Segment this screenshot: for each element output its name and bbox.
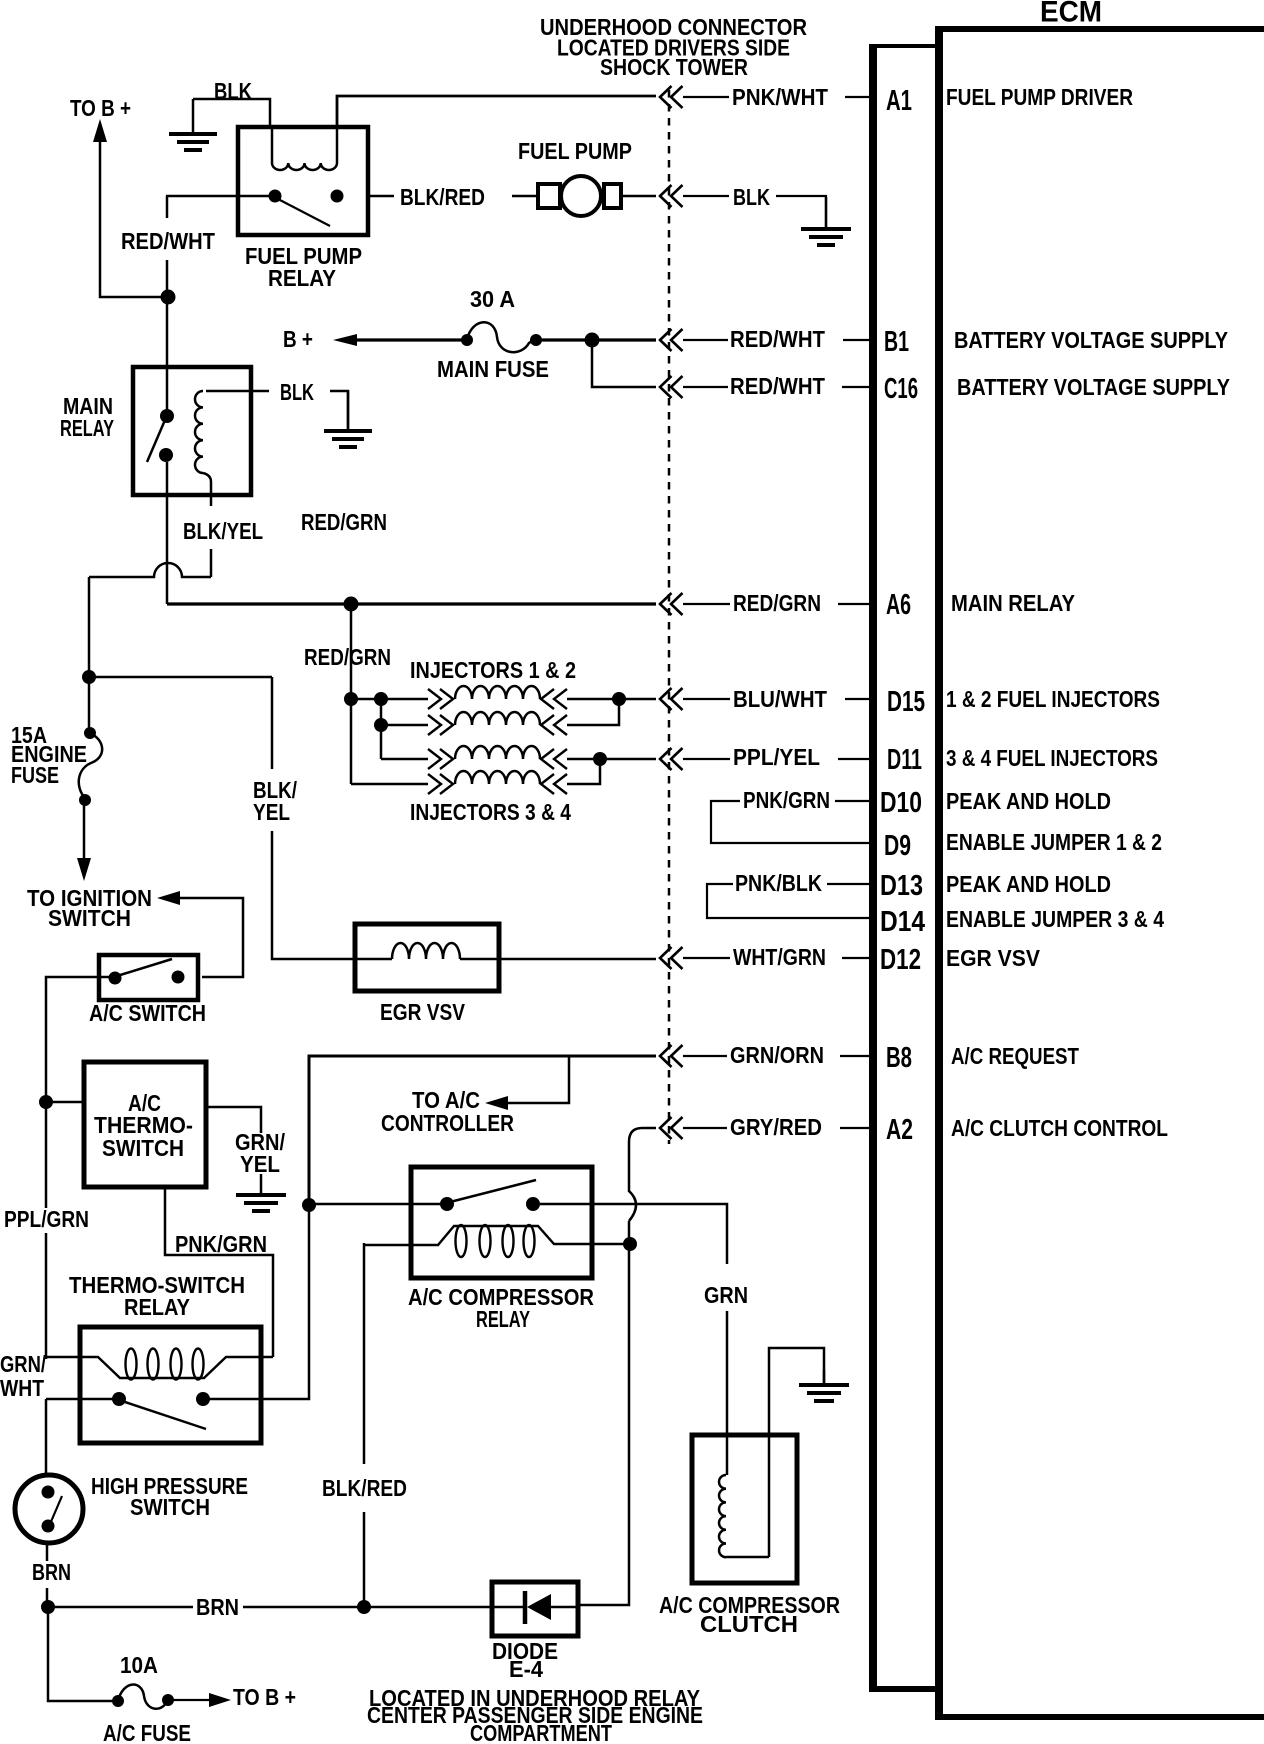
wire A/C switch left down <box>46 977 111 1097</box>
connector chevrons A2 row <box>660 1117 672 1139</box>
A/C switch contact right <box>172 971 185 984</box>
high pressure switch circle <box>15 1475 83 1543</box>
svg-text:A/C CLUTCH CONTROL: A/C CLUTCH CONTROL <box>951 1115 1168 1141</box>
wire GRY/RED to ECM pin A2 <box>840 1127 870 1129</box>
wire GRN/WHT to relay <box>46 1398 113 1401</box>
high pressure switch blade <box>50 1496 62 1524</box>
svg-text:A1: A1 <box>886 85 912 117</box>
svg-text:BLU/WHT: BLU/WHT <box>733 686 827 712</box>
wire BLU/WHT to ECM pin D15 <box>845 698 870 700</box>
wire main relay switch to A6 (RED/GRN) <box>166 462 169 604</box>
A/C compressor relay box <box>411 1167 592 1278</box>
svg-text:B1: B1 <box>884 326 909 358</box>
svg-text:BLK/RED: BLK/RED <box>400 184 485 210</box>
main fuse element <box>467 322 535 352</box>
wire PPL/GRN upper <box>45 1102 48 1208</box>
wire BLK to ground (main relay) <box>330 391 348 430</box>
svg-text:CLUTCH: CLUTCH <box>700 1611 798 1637</box>
svg-text:A/C SWITCH: A/C SWITCH <box>89 1000 206 1026</box>
svg-text:3 & 4 FUEL INJECTORS: 3 & 4 FUEL INJECTORS <box>946 745 1158 771</box>
connector dashed line <box>668 90 671 1144</box>
A/C switch contact left <box>109 972 122 985</box>
svg-text:PNK/GRN: PNK/GRN <box>175 1231 267 1257</box>
svg-text:SWITCH: SWITCH <box>130 1494 210 1520</box>
svg-text:PPL/GRN: PPL/GRN <box>4 1206 89 1232</box>
wire BLK/YEL to EGR branch <box>89 676 272 679</box>
wire GRY/RED corner down <box>629 1128 656 1192</box>
svg-text:C16: C16 <box>884 373 918 405</box>
wire BLU/WHT <box>683 698 730 700</box>
wire GRN/ORN <box>683 1055 727 1057</box>
svg-text:EGR VSV: EGR VSV <box>946 945 1041 971</box>
wire TO B+ down to RED/WHT junction <box>100 138 162 297</box>
ground fuel pump relay coil <box>192 99 195 134</box>
thermo-switch relay contact right <box>196 1392 210 1406</box>
svg-text:FUEL PUMP DRIVER: FUEL PUMP DRIVER <box>946 84 1133 110</box>
connector chevrons D11 row <box>660 748 672 770</box>
svg-text:PPL/YEL: PPL/YEL <box>733 744 820 770</box>
svg-text:WHT: WHT <box>0 1375 44 1401</box>
ECM connector strip top stub <box>877 44 936 48</box>
wire GRN/WHT down <box>45 1399 48 1477</box>
svg-text:GRN/: GRN/ <box>0 1351 46 1377</box>
svg-text:PNK/BLK: PNK/BLK <box>735 870 822 896</box>
wire BLK/RED vertical lower <box>363 1512 366 1607</box>
svg-text:PEAK AND HOLD: PEAK AND HOLD <box>946 871 1111 897</box>
svg-text:RED/GRN: RED/GRN <box>304 644 391 670</box>
svg-text:BLK/RED: BLK/RED <box>322 1475 407 1501</box>
wire RED/WHT vertical upper <box>166 196 169 218</box>
arrow to ignition (down) <box>77 858 91 881</box>
diode bar <box>523 1591 528 1624</box>
arrow TO B+ (bottom) <box>209 1693 231 1707</box>
svg-text:RED/GRN: RED/GRN <box>733 590 821 616</box>
A/C fuse terminal right <box>162 1694 174 1706</box>
diode wire left <box>492 1606 523 1609</box>
svg-text:MAIN RELAY: MAIN RELAY <box>951 590 1075 616</box>
svg-text:SHOCK TOWER: SHOCK TOWER <box>600 54 748 80</box>
svg-text:D14: D14 <box>880 906 925 938</box>
svg-text:A2: A2 <box>886 1114 913 1146</box>
wire main relay coil lower (BLK/YEL) <box>210 549 213 577</box>
svg-text:RELAY: RELAY <box>124 1294 190 1320</box>
main relay coil <box>206 390 269 393</box>
svg-text:BRN: BRN <box>196 1594 239 1620</box>
svg-text:E-4: E-4 <box>509 1656 543 1682</box>
svg-text:BLK: BLK <box>733 184 770 210</box>
main relay contact upper <box>160 409 174 423</box>
fuel pump relay coil <box>271 127 274 163</box>
connector chevrons A6 row <box>660 593 672 615</box>
junction GRY/RED coil <box>623 1237 637 1251</box>
ECM connector strip bottom edge <box>869 1686 936 1692</box>
svg-text:RED/WHT: RED/WHT <box>730 373 825 399</box>
wire main fuse to B1 connector <box>536 338 656 341</box>
svg-text:GRN/ORN: GRN/ORN <box>730 1042 824 1068</box>
svg-text:A/C REQUEST: A/C REQUEST <box>951 1043 1079 1069</box>
svg-text:RELAY: RELAY <box>60 415 114 441</box>
wire PNK/WHT <box>683 96 729 98</box>
engine fuse element <box>79 733 102 798</box>
junction injectors 3&4 output <box>593 752 607 766</box>
connector chevrons A1 row <box>660 86 672 108</box>
ground thermo-switch <box>260 1174 263 1195</box>
svg-text:PNK/WHT: PNK/WHT <box>732 84 828 110</box>
svg-text:PNK/GRN: PNK/GRN <box>743 787 830 813</box>
A/C thermo-switch box <box>84 1062 206 1187</box>
engine fuse terminal bottom <box>79 794 91 806</box>
wire PNK/BLK to ECM pin D13 <box>827 883 870 885</box>
junction A/C switch branch <box>39 1095 53 1109</box>
wire BLK/YEL hop over RED/GRN <box>89 563 211 577</box>
junction B8 corner <box>302 1198 316 1212</box>
svg-text:D10: D10 <box>880 787 922 819</box>
wire PPL/YEL to ECM pin D11 <box>838 758 870 760</box>
wire A/C fuse to arrow <box>168 1699 212 1701</box>
svg-text:RED/GRN: RED/GRN <box>301 509 387 535</box>
wire injector feeder A vertical <box>350 604 353 784</box>
wire below high pressure switch <box>46 1543 49 1561</box>
junction BRN/BLKRED <box>357 1600 371 1614</box>
junction B1/C16 <box>585 333 600 348</box>
wire GRN lower <box>726 1311 729 1437</box>
wire RED/WHT to fuel pump relay <box>166 195 269 198</box>
svg-text:A/C FUSE: A/C FUSE <box>103 1720 191 1744</box>
svg-text:FUSE: FUSE <box>11 762 59 788</box>
thermo-switch relay box <box>80 1327 261 1443</box>
svg-text:B8: B8 <box>886 1042 912 1074</box>
svg-text:ECM: ECM <box>1040 0 1102 29</box>
svg-text:TO B +: TO B + <box>233 1684 296 1710</box>
junction BLK/YEL <box>82 670 96 684</box>
wire RED/WHT to ECM pin C16 <box>842 386 870 388</box>
junction injector feeder B top <box>374 692 388 706</box>
A/C fuse terminal left <box>112 1695 124 1707</box>
wire RED/WHT to ECM pin B1 <box>843 339 870 341</box>
svg-text:RED/WHT: RED/WHT <box>121 228 215 254</box>
wire B8 to compressor relay switch <box>309 1203 444 1206</box>
svg-text:GRY/RED: GRY/RED <box>730 1114 822 1140</box>
wire BLK/YEL vertical lower to EGR <box>272 831 358 959</box>
svg-text:1 & 2 FUEL INJECTORS: 1 & 2 FUEL INJECTORS <box>946 686 1160 712</box>
compressor relay contact left <box>440 1197 454 1211</box>
wire GRN/ORN to ECM pin B8 <box>840 1055 870 1057</box>
wire GRN/ORN B8 feeder <box>309 1056 656 1199</box>
fuel pump relay contact right <box>331 190 344 203</box>
junction injector row2 feeder B <box>374 718 388 732</box>
svg-text:10A: 10A <box>120 1652 158 1678</box>
wire fuel pump relay coil to A1 connector <box>337 96 656 127</box>
svg-text:INJECTORS 1 & 2: INJECTORS 1 & 2 <box>410 657 576 683</box>
junction injector row1 feeder A <box>344 692 358 706</box>
wire junction to engine fuse <box>88 677 91 733</box>
A/C compressor clutch box <box>692 1435 797 1583</box>
wire GRY/RED to relay coil <box>628 1221 631 1240</box>
A/C switch box <box>99 955 198 1000</box>
compressor relay coil <box>364 1226 624 1245</box>
diode box <box>492 1582 578 1636</box>
junction RED/WHT <box>161 290 176 305</box>
junction A6/injectors <box>344 597 359 612</box>
svg-text:RELAY: RELAY <box>268 265 336 291</box>
wire BLK/YEL down to junction <box>88 577 91 677</box>
compressor clutch coil <box>726 1437 729 1475</box>
injector 2 coil <box>381 724 428 727</box>
wire compressor relay switch output (GRN) <box>540 1204 727 1264</box>
wire thermo-switch to ground <box>206 1107 261 1133</box>
wire BLK right of connector <box>683 195 729 197</box>
svg-text:ENABLE JUMPER 3 & 4: ENABLE JUMPER 3 & 4 <box>946 906 1164 932</box>
ECM box bottom edge <box>943 1714 1264 1720</box>
junction BRN corner <box>41 1600 55 1614</box>
connector chevrons C16 row <box>660 376 672 398</box>
svg-text:30 A: 30 A <box>470 286 515 312</box>
wire BRN left segment <box>48 1606 193 1609</box>
wire RED/WHT B1 <box>683 339 728 341</box>
svg-text:PEAK AND HOLD: PEAK AND HOLD <box>946 788 1111 814</box>
wire B1 junction down to C16 <box>592 340 656 387</box>
wire PNK/GRN to ECM pin D10 <box>835 800 870 802</box>
ECM box left bar <box>935 26 943 1720</box>
main relay switch blade <box>147 420 165 462</box>
svg-text:D12: D12 <box>880 944 921 976</box>
thermo-switch relay blade <box>122 1401 206 1429</box>
injector 1 coil <box>351 698 428 701</box>
diode wire right <box>551 1606 578 1609</box>
connector chevrons D15 row <box>660 688 672 710</box>
arrow to B+ (top) <box>93 119 107 142</box>
wire diode to GRY/RED riser <box>578 1246 629 1605</box>
engine fuse terminal top <box>84 727 96 739</box>
svg-text:ENABLE JUMPER 1 & 2: ENABLE JUMPER 1 & 2 <box>946 829 1162 855</box>
svg-text:WHT/GRN: WHT/GRN <box>733 944 826 970</box>
svg-text:RELAY: RELAY <box>476 1306 530 1332</box>
connector chevrons B8 row <box>660 1045 672 1067</box>
diode triangle <box>527 1594 551 1620</box>
wire clutch coil to ground <box>769 1348 824 1557</box>
junction injectors 1&2 output <box>612 692 626 706</box>
wire injector1 output <box>567 698 656 701</box>
high pressure switch contact bottom <box>42 1520 55 1533</box>
main fuse terminal left <box>461 334 473 346</box>
wire PNK/GRN thermo-switch output <box>165 1187 273 1357</box>
wire A/C switch to ignition arrow <box>176 898 243 977</box>
connector chevrons B1 row <box>660 329 672 351</box>
wire BRN right segment <box>243 1606 490 1609</box>
wire WHT/GRN to ECM pin D12 <box>842 957 870 959</box>
fuel pump relay contact left <box>269 190 282 203</box>
wire to A/C controller from B8 <box>504 1056 569 1103</box>
wire BLK/RED fuel pump relay output <box>368 195 394 198</box>
wire BLK/YEL vertical upper <box>271 677 274 769</box>
main fuse terminal right <box>530 334 542 346</box>
wire RED/GRN to ECM pin A6 <box>838 603 870 605</box>
wire B+ to main fuse <box>352 338 467 341</box>
A/C fuse element <box>118 1685 167 1709</box>
svg-text:BLK/YEL: BLK/YEL <box>183 518 263 544</box>
wire PNK/WHT to ECM pin A1 <box>845 96 870 98</box>
wire BRN to junction <box>46 1588 49 1607</box>
wire GRY/RED hop over switch wire <box>629 1191 636 1221</box>
wire RED/WHT vertical lower <box>166 260 169 416</box>
svg-text:D13: D13 <box>880 870 923 902</box>
arrow to A/C controller <box>485 1096 508 1110</box>
wire RED/GRN A6 <box>683 603 730 605</box>
svg-text:D15: D15 <box>887 686 925 718</box>
wire fuel pump to connector <box>621 195 656 198</box>
wire junction to thermo-switch <box>46 1101 84 1104</box>
svg-text:BRN: BRN <box>32 1559 71 1585</box>
svg-text:COMPARTMENT: COMPARTMENT <box>470 1720 612 1744</box>
wire BLK/RED to fuel pump <box>512 195 538 198</box>
EGR VSV coil <box>358 958 392 961</box>
connector chevrons fuel pump BLK row <box>660 185 672 207</box>
svg-text:BLK: BLK <box>280 379 314 405</box>
wire injector2 output <box>567 699 619 725</box>
svg-text:B +: B + <box>283 326 313 352</box>
wire RED/GRN A6 feeder <box>167 602 656 605</box>
wire injector feeder B vertical <box>380 699 383 759</box>
connector chevrons D12 row <box>660 947 672 969</box>
svg-text:BATTERY VOLTAGE SUPPLY: BATTERY VOLTAGE SUPPLY <box>954 327 1228 353</box>
svg-text:RED/WHT: RED/WHT <box>730 326 825 352</box>
wire PPL/YEL <box>683 758 730 760</box>
arrow B+ left <box>333 334 357 346</box>
svg-text:YEL: YEL <box>253 799 290 825</box>
svg-text:A6: A6 <box>886 589 911 621</box>
thermo-switch relay contact left <box>112 1392 126 1406</box>
wire injector3 output <box>567 758 656 761</box>
wire PPL/GRN lower <box>45 1233 48 1359</box>
wire BLK/RED vertical upper <box>363 1243 366 1464</box>
svg-text:GRN: GRN <box>704 1282 748 1308</box>
main relay contact lower <box>159 448 173 462</box>
wire PNK/GRN jumper bracket <box>711 801 870 843</box>
EGR VSV box <box>355 924 499 991</box>
injector 3 coil <box>381 758 428 761</box>
wire BLK to ground <box>776 196 826 228</box>
A/C switch blade <box>117 959 172 976</box>
ground fuel pump <box>825 197 828 229</box>
ECM connector strip left bar <box>869 44 877 1692</box>
svg-text:BATTERY VOLTAGE SUPPLY: BATTERY VOLTAGE SUPPLY <box>957 374 1230 400</box>
svg-text:INJECTORS 3 & 4: INJECTORS 3 & 4 <box>410 799 571 825</box>
svg-text:MAIN FUSE: MAIN FUSE <box>437 356 549 382</box>
svg-text:D9: D9 <box>884 830 911 862</box>
ground main relay <box>347 391 350 431</box>
svg-text:SWITCH: SWITCH <box>48 905 131 931</box>
thermo-switch relay coil <box>46 1357 273 1378</box>
injector 4 coil <box>351 783 428 786</box>
arrow to ignition switch (left) <box>157 891 180 905</box>
wire GRY/RED <box>683 1127 727 1129</box>
fuel pump relay box <box>238 127 368 235</box>
wire BRN down to A/C fuse <box>48 1607 112 1701</box>
compressor relay contact right <box>526 1197 540 1211</box>
svg-text:SWITCH: SWITCH <box>102 1135 184 1161</box>
wire PNK/BLK jumper bracket <box>707 884 870 918</box>
svg-text:YEL: YEL <box>240 1151 280 1177</box>
svg-text:EGR VSV: EGR VSV <box>380 999 466 1025</box>
wire injector4 output <box>567 759 600 784</box>
svg-text:CONTROLLER: CONTROLLER <box>381 1110 514 1136</box>
high pressure switch contact top <box>42 1486 55 1499</box>
wire thermo relay output to B8 riser <box>209 1211 309 1399</box>
wire RED/WHT C16 <box>683 386 728 388</box>
compressor relay switch blade <box>450 1180 536 1202</box>
ECM box top edge <box>943 26 1264 32</box>
ground compressor clutch <box>823 1370 826 1385</box>
svg-text:FUEL PUMP: FUEL PUMP <box>518 138 632 164</box>
fuel pump motor symbol <box>538 184 560 208</box>
svg-text:TO B +: TO B + <box>70 95 131 121</box>
svg-text:D11: D11 <box>887 744 922 776</box>
wire engine fuse to ignition arrow <box>83 799 86 858</box>
fuel pump relay switch blade <box>278 199 330 226</box>
wire ground to fuel pump relay coil <box>193 99 270 127</box>
wire WHT/GRN <box>683 957 730 959</box>
main relay box <box>133 367 251 495</box>
